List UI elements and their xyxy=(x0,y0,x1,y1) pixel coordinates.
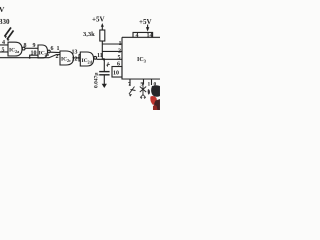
lamp/X symbol below IC3 pin 9 xyxy=(140,84,146,98)
svg-text:6: 6 xyxy=(117,62,120,68)
svg-text:12: 12 xyxy=(71,56,77,62)
svg-text:8: 8 xyxy=(24,43,27,49)
svg-text:+5V: +5V xyxy=(139,18,152,26)
NAND gate IC2d xyxy=(80,52,96,66)
node +5V (right) xyxy=(146,27,149,31)
NAND gate IC2a xyxy=(8,42,25,56)
capacitor C1 0.047u xyxy=(103,59,105,71)
wire IC3 bottom pin stubs xyxy=(129,79,131,86)
NAND gate IC2c xyxy=(60,51,74,65)
svg-text:11: 11 xyxy=(97,53,103,59)
wire gate2 output to gate3 (pin 6 to 1) xyxy=(50,51,60,53)
wire resistor top to +5V arrow xyxy=(101,27,103,31)
svg-text:13: 13 xyxy=(71,49,77,55)
svg-text:2c: 2c xyxy=(67,58,71,63)
svg-text:1: 1 xyxy=(57,46,60,52)
capacitor C2 box at IC pin 10 xyxy=(112,67,122,78)
svg-text:4: 4 xyxy=(136,33,139,39)
svg-text:6: 6 xyxy=(51,46,54,52)
svg-text:2: 2 xyxy=(55,54,58,60)
wire gate3 output xyxy=(73,57,79,59)
svg-text:7: 7 xyxy=(128,82,131,88)
svg-text:10: 10 xyxy=(30,50,36,56)
svg-text:330: 330 xyxy=(0,18,10,26)
wire gate4 output pin 11 to IC3 pins 5/6 xyxy=(97,58,122,60)
NAND gate IC2b xyxy=(38,45,50,58)
svg-text:5: 5 xyxy=(2,47,5,53)
arrow symbol below IC3 pin 7 xyxy=(129,87,136,95)
svg-text:2b: 2b xyxy=(45,52,50,57)
resistor R1 3.3k vertical xyxy=(100,30,105,41)
svg-text:0.047μ: 0.047μ xyxy=(93,72,99,88)
svg-text:5: 5 xyxy=(117,55,120,61)
LED arrows (light arrows, cut off at left) xyxy=(5,27,14,39)
svg-text:3,3k: 3,3k xyxy=(83,31,95,38)
wire gate4 input split (pins 13,12) xyxy=(79,54,80,61)
wire branch to IC3 pin 2 xyxy=(102,50,122,52)
wire gate2 lower input (pin 10) xyxy=(30,55,38,58)
photo blob bottom right xyxy=(148,85,160,110)
svg-text:2d: 2d xyxy=(87,60,92,65)
node junction dot xyxy=(103,58,105,60)
wire branch to IC3 pin 1 xyxy=(102,43,122,45)
wire gate1 input bottom (pin 5) xyxy=(0,51,8,53)
svg-text:+5V: +5V xyxy=(92,16,105,24)
svg-text:4: 4 xyxy=(2,40,5,46)
IC IC3 box xyxy=(122,37,160,79)
wire resistor bottom down xyxy=(101,41,103,59)
wire gate1 output to gate2 (pin 8 to 9) xyxy=(25,47,38,49)
ground xyxy=(102,84,107,88)
svg-text:9: 9 xyxy=(33,43,36,49)
wire gate1 input top (pin 4) xyxy=(0,44,8,46)
svg-text:1: 1 xyxy=(119,41,122,47)
svg-text:14: 14 xyxy=(147,33,153,39)
wire long bottom feed xyxy=(0,55,60,58)
wire +5V to pins 4 and 14 xyxy=(133,32,153,37)
svg-text:1: 1 xyxy=(147,82,150,88)
svg-text:2: 2 xyxy=(118,49,121,55)
svg-text:10: 10 xyxy=(113,71,119,77)
polarity mark xyxy=(106,62,110,66)
svg-text:V: V xyxy=(0,5,5,14)
node junction xyxy=(29,57,31,59)
